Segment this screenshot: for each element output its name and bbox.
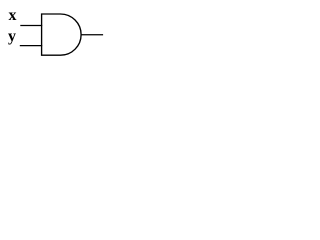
wire: gate output <box>81 34 103 36</box>
wire: input y to gate <box>20 45 42 47</box>
svg-text:y: y <box>8 28 16 45</box>
wire: input x to gate <box>20 25 42 27</box>
AND gate U1 <box>42 14 82 55</box>
svg-text:x: x <box>9 7 17 24</box>
